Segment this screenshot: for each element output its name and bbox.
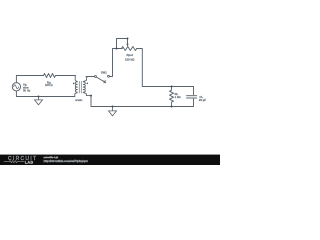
potentiometer Rpot zigzag xyxy=(121,47,136,51)
transformer XFMR1 secondary winding xyxy=(83,77,94,96)
switch SW1 blade arrow tip xyxy=(103,80,106,83)
voltage source V1 (Vg) xyxy=(12,83,20,91)
capacitor CL top lead xyxy=(193,87,195,96)
junction dot primary ground xyxy=(38,96,40,98)
resistor RL vertical zigzag xyxy=(170,87,174,107)
svg-text:SW1: SW1 xyxy=(101,71,107,75)
capacitor CL bottom lead xyxy=(193,98,195,106)
transformer phase dot right xyxy=(87,83,89,85)
junction dot RL top xyxy=(171,86,173,88)
resistor Rg zigzag xyxy=(44,74,56,78)
junction dot pot left lead xyxy=(116,48,118,50)
transformer phase dot left xyxy=(73,83,75,85)
transformer XFMR1 primary winding xyxy=(75,76,78,97)
junction dot pot wiper corner xyxy=(127,38,129,40)
wire secondary bottom corner down and load bottom wire xyxy=(91,96,194,107)
pot feedback wire wiper-to-left-terminal xyxy=(117,39,128,49)
junction dot transformer secondary corner xyxy=(90,95,92,97)
wire source bottom, primary bottom wire xyxy=(16,91,74,97)
transformer secondary top lead wire into switch xyxy=(86,76,95,78)
svg-text:100 Ω: 100 Ω xyxy=(45,83,53,87)
switch SW1 contact circles xyxy=(95,75,110,77)
transformer core lines xyxy=(79,81,81,93)
svg-text:20 µF: 20 µF xyxy=(199,98,206,102)
capacitor CL plates xyxy=(186,96,197,98)
svg-text:1 kΩ: 1 kΩ xyxy=(175,95,182,99)
sine symbol inside source xyxy=(14,85,19,89)
logo wire squiggle xyxy=(4,161,25,163)
wire Rg to transformer primary xyxy=(56,75,76,77)
svg-text:XFMR1: XFMR1 xyxy=(75,100,83,102)
junction dot secondary ground xyxy=(112,106,114,108)
ground symbol primary xyxy=(35,97,43,105)
ground symbol secondary xyxy=(109,107,117,116)
switch SW1 blade xyxy=(96,77,104,82)
pot wiper arrowhead xyxy=(126,44,128,47)
wire pot right lead down and load top wire xyxy=(137,49,194,87)
junction dot RL bottom xyxy=(171,106,173,108)
svg-text:50 Hz: 50 Hz xyxy=(23,89,31,93)
svg-text:100 kΩ: 100 kΩ xyxy=(125,57,135,61)
wire source top to Rg xyxy=(16,76,43,83)
bottom black branding bar xyxy=(0,155,220,165)
wire switch right contact to pot left lead xyxy=(110,49,123,77)
